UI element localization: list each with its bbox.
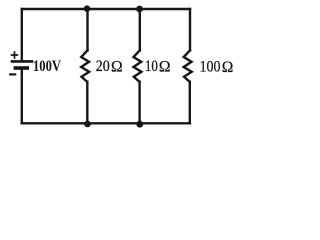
svg-text:10: 10 [145, 58, 158, 75]
node junction top A [84, 5, 91, 12]
wire resistor R1 top lead [86, 9, 88, 50]
wire left lower (battery branch bottom) [21, 70, 23, 124]
svg-text:100: 100 [200, 59, 221, 76]
wire resistor R2 bottom lead [138, 82, 140, 124]
svg-text:Ω: Ω [111, 58, 123, 75]
resistor R2 zigzag [134, 50, 142, 81]
battery B1 positive plate (long) [12, 60, 32, 63]
svg-text:100V: 100V [33, 58, 61, 75]
svg-text:20: 20 [96, 58, 110, 75]
svg-text:Ω: Ω [222, 59, 234, 76]
wire left upper (battery branch top) [21, 9, 23, 61]
wire top [22, 8, 190, 10]
resistor R1 zigzag [81, 50, 89, 81]
node junction top B [136, 6, 143, 13]
node junction bottom B [136, 121, 143, 128]
wire resistor R3 bottom lead [189, 82, 191, 124]
wire resistor R3 top lead (right edge) [189, 9, 191, 50]
battery minus sign [10, 73, 15, 75]
svg-text:Ω: Ω [159, 58, 171, 75]
node junction bottom A [84, 121, 91, 128]
wire resistor R1 bottom lead [86, 82, 88, 124]
wire bottom [22, 122, 190, 124]
resistor R3 zigzag [184, 50, 192, 81]
wire resistor R2 top lead [139, 9, 141, 50]
battery B1 negative plate (short) [15, 66, 27, 70]
battery plus sign [12, 52, 18, 58]
